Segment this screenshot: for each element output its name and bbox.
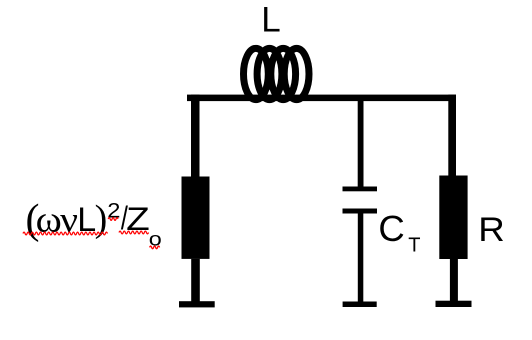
resistor (wvL)^2/Zo block <box>182 177 210 259</box>
ground middle <box>343 302 377 308</box>
svg-text:T: T <box>408 235 420 257</box>
wire middle vertical lower <box>358 214 364 303</box>
inductor L coil <box>244 48 310 99</box>
capacitor CT bottom plate <box>343 209 378 214</box>
spellcheck squiggle under subscript o <box>150 246 160 249</box>
wire left vertical lower <box>191 259 200 303</box>
wire middle vertical upper <box>358 100 364 187</box>
svg-text:C: C <box>378 208 404 249</box>
ground right <box>436 301 472 307</box>
capacitor CT top plate <box>343 187 378 192</box>
wire top horizontal <box>187 95 456 102</box>
ground left <box>179 301 215 307</box>
spellcheck squiggle under superscript 2 <box>108 218 118 221</box>
svg-text:L: L <box>261 0 280 39</box>
resistor R block <box>439 176 467 260</box>
wire right vertical lower <box>450 259 458 302</box>
spellcheck squiggle under (wvL) <box>23 232 107 235</box>
svg-text:R: R <box>478 211 505 248</box>
spellcheck squiggle under /Z <box>119 231 149 234</box>
wire right vertical upper <box>448 95 456 176</box>
wire left vertical upper <box>191 95 200 179</box>
